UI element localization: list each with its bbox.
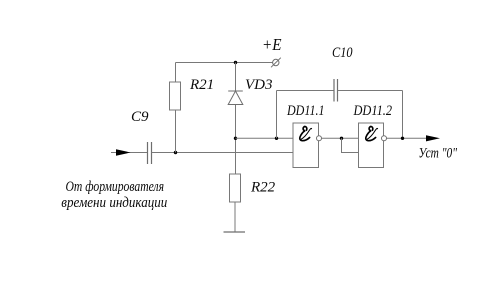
node junction C10 right tap (401, 137, 404, 140)
bubble DD11.2 output inversion (382, 136, 387, 141)
svg-text:DD11.1: DD11.1 (286, 103, 324, 119)
capacitor C10 (334, 79, 338, 102)
svg-text:времени индикации: времени индикации (61, 195, 167, 211)
capacitor C9 (148, 142, 152, 164)
wire top supply rail (176, 62, 273, 64)
svg-text:От формирователя: От формирователя (66, 179, 165, 195)
diode VD3 (228, 91, 243, 105)
svg-text:VD3: VD3 (245, 77, 273, 93)
wire R22 bottom lead (234, 202, 236, 232)
wire node to DD11.1 upper input (236, 137, 294, 139)
ground (224, 231, 246, 233)
wire R21 top lead (175, 63, 177, 83)
wire C10 left riser (276, 91, 278, 139)
wire main signal line to DD11.1 lower input (152, 152, 294, 154)
wire R21 bottom lead (175, 110, 177, 153)
svg-text:Уст "0": Уст "0" (419, 146, 458, 162)
wire input lead (111, 152, 147, 154)
bubble DD11.1 output inversion (317, 136, 322, 141)
label От формирователя времени индикации (61, 179, 167, 211)
wire VD3 vertical branch (235, 63, 237, 175)
resistor R22 (230, 174, 241, 202)
svg-text:C9: C9 (131, 109, 149, 125)
wire DD11.2 lower input loop (342, 138, 359, 152)
wire C10 top left segment (277, 90, 335, 92)
node junction R21 bottom (174, 151, 177, 154)
svg-text:R21: R21 (189, 77, 214, 93)
output arrow (426, 135, 440, 141)
svg-text:C10: C10 (332, 45, 353, 61)
node junction VD3 top (234, 61, 237, 64)
gate DD11.1 (293, 123, 319, 168)
resistor R21 (170, 82, 181, 110)
node junction VD3 bottom (234, 137, 237, 140)
wire C10 top right segment (338, 90, 403, 92)
gate DD11.2 (359, 123, 384, 168)
wire C10 right riser (402, 91, 404, 139)
terminal +E (271, 58, 281, 68)
input arrow (116, 149, 131, 156)
node junction DD11.2 input tie (340, 137, 343, 140)
wire output lead (387, 137, 428, 139)
svg-text:+E: +E (262, 35, 282, 54)
svg-text:DD11.2: DD11.2 (353, 103, 393, 119)
node junction C10 left tap (275, 137, 278, 140)
svg-text:R22: R22 (250, 180, 276, 196)
wire DD11.1 output to DD11.2 (322, 137, 359, 139)
